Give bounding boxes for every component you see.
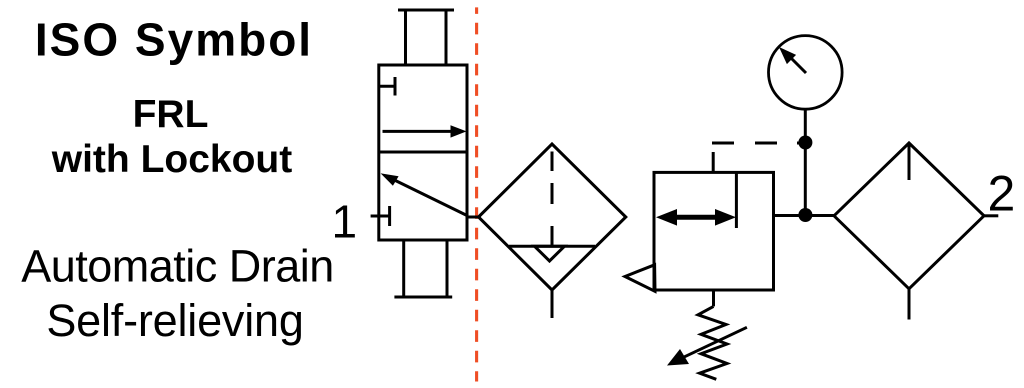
svg-text:1: 1 [332,196,358,248]
svg-text:2: 2 [988,166,1016,222]
svg-text:Automatic Drain: Automatic Drain [21,241,334,292]
svg-text:FRL: FRL [133,93,209,136]
svg-text:with Lockout: with Lockout [51,138,292,181]
svg-text:Self-relieving: Self-relieving [46,295,303,346]
svg-text:ISO Symbol: ISO Symbol [35,14,313,66]
